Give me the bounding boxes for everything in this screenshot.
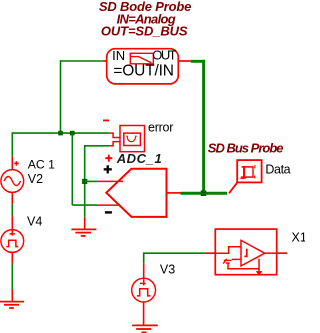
error block minus label	[103, 120, 109, 122]
error block lower pin stub	[109, 142, 120, 146]
svg-text:OUT=SD_BUS: OUT=SD_BUS	[101, 23, 188, 38]
X1 lower input wire	[232, 258, 241, 260]
source V3 circle	[132, 278, 156, 302]
source V2 sine glyph	[4, 177, 20, 186]
bus wire vertical thick	[202, 60, 205, 195]
comparator plus label	[104, 165, 112, 173]
error block curve glyph	[126, 136, 136, 142]
wire IN horizontal	[61, 60, 103, 62]
source V3 pulse glyph	[137, 289, 151, 296]
bus probe glyph	[240, 165, 255, 178]
junction at bus corner	[201, 190, 207, 196]
wire left drop to V2	[11, 132, 13, 156]
wire IN vertical drop	[60, 60, 62, 133]
wire V4-ground link	[11, 264, 13, 289]
svg-text:=OUT/IN: =OUT/IN	[113, 63, 174, 80]
X1 input zigzag	[215, 247, 241, 253]
junction at minus branch	[70, 131, 75, 136]
X1 reference battery marks	[223, 259, 231, 264]
X1 output stub	[277, 252, 288, 254]
error block E1 body	[120, 126, 145, 152]
source V3 top stub	[143, 264, 145, 286]
ground G1 stub	[11, 289, 13, 301]
ground G2 stub	[84, 217, 86, 229]
X1 ground arrow	[258, 269, 260, 272]
svg-text:Data: Data	[265, 162, 290, 176]
error block plus label	[105, 155, 112, 162]
bode probe icon	[130, 53, 153, 64]
source V2 top stub	[11, 157, 13, 170]
ground G2	[71, 229, 96, 236]
X1 integrator bar	[244, 249, 246, 257]
bus probe diagonal lead	[229, 182, 237, 193]
comparator minus pin stub	[97, 204, 119, 206]
bus wire OUT top horizontal thick	[191, 60, 205, 63]
comparator minus label	[105, 211, 112, 213]
source V3 bottom stub	[143, 302, 145, 325]
source V4 top stub	[11, 216, 13, 235]
wire minus branch horizontal	[72, 204, 97, 206]
junction at plus input	[82, 179, 87, 184]
svg-text:V3: V3	[160, 262, 175, 276]
source V4 bottom stub	[11, 252, 13, 263]
subcircuit X1 box	[215, 229, 276, 275]
source V2 circle	[1, 170, 24, 193]
source V2 plus mark	[14, 161, 19, 166]
svg-text:AC 1: AC 1	[28, 157, 55, 171]
source V2 bottom stub	[11, 192, 13, 204]
bus wire output horizontal thick	[181, 192, 228, 195]
svg-text:V4: V4	[27, 215, 42, 229]
X1 opamp triangle	[241, 240, 265, 266]
comparator plus pin stub	[97, 180, 123, 182]
wire X1 input horizontal	[144, 252, 206, 254]
wire plus branch vertical	[84, 145, 86, 217]
error block upper pin stub	[109, 133, 120, 137]
comparator ADC_1 body	[106, 169, 166, 217]
svg-text:ADC_1: ADC_1	[116, 151, 162, 166]
X1 output wire	[265, 252, 277, 254]
comparator output stub	[167, 192, 181, 194]
svg-text:V2: V2	[28, 172, 43, 186]
bus probe body	[237, 160, 261, 182]
source V4 circle	[1, 230, 24, 253]
wire V2-V4 link	[11, 204, 13, 216]
wire top bus horizontal	[12, 132, 109, 134]
svg-text:error: error	[148, 121, 173, 135]
wire V3 vertical	[143, 252, 145, 263]
ground G3	[132, 325, 158, 332]
wire minus branch vertical	[71, 133, 73, 205]
bode probe U_bode body	[107, 49, 179, 84]
svg-text:OUT: OUT	[152, 48, 176, 63]
svg-text:IN: IN	[112, 48, 125, 63]
wire plus input horizontal	[85, 180, 97, 182]
svg-text:SD Bus Probe: SD Bus Probe	[208, 141, 284, 156]
wire error lower horizontal	[85, 145, 109, 147]
bode probe left pin stub	[103, 60, 107, 62]
ground G1	[0, 302, 24, 308]
svg-text:X1: X1	[292, 231, 306, 245]
X1 bottom rail	[228, 259, 259, 269]
X1 input stub	[206, 252, 216, 254]
junction at IN drop	[58, 131, 63, 136]
source V4 pulse glyph	[6, 240, 18, 246]
bode probe right pin stub	[178, 60, 190, 62]
source V3 plus mark	[140, 282, 146, 284]
source V4 plus mark	[10, 233, 15, 235]
